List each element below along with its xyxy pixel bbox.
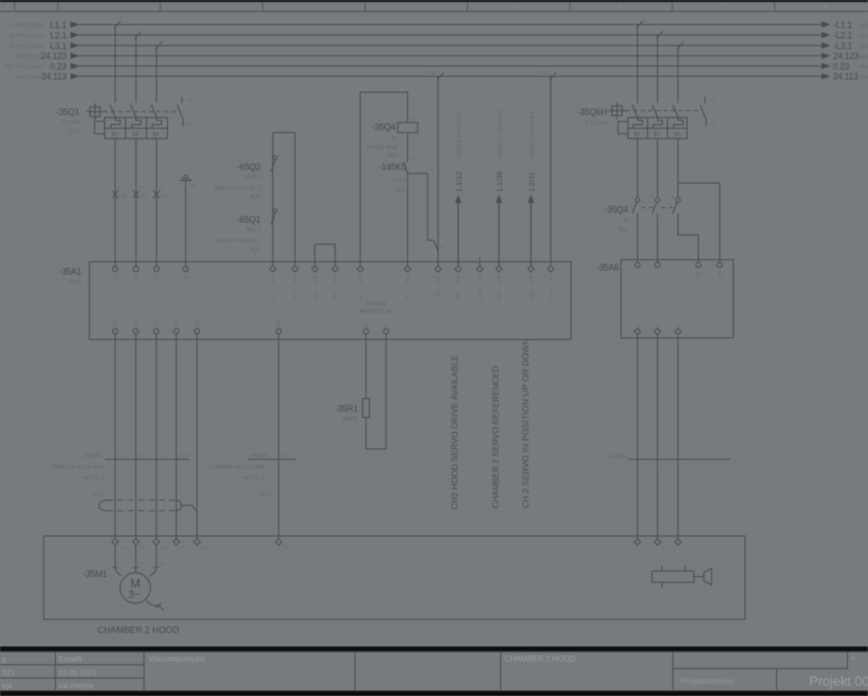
svg-text:1: 1 (631, 195, 633, 199)
page frame top bar (0, 0, 868, 2)
svg-text:X1.1: X1.1 (270, 275, 275, 284)
wire gauge cross mark (133, 190, 139, 198)
motor PE lead (147, 601, 164, 611)
actuator stem (694, 576, 704, 578)
-35A1 top pin DC+ (357, 266, 363, 272)
wire -35A6 pin 1 to machine box (637, 335, 639, 539)
svg-text:DC-: DC- (405, 292, 410, 300)
svg-text:24.113: 24.113 (833, 72, 858, 82)
svg-text:143.2: 143.2 (392, 178, 406, 184)
svg-text:RES: RES (276, 319, 281, 328)
-35A6 top pin L- (655, 262, 660, 267)
svg-text:14: 14 (711, 121, 716, 126)
svg-text:W1: W1 (161, 545, 168, 550)
node L2.1 junction / drop to -35Q6H pole 2 (657, 35, 659, 103)
-35A1 top pin L3 (154, 266, 159, 271)
-35A6 bottom pin 3 (675, 328, 681, 334)
aux contact blade joining x438 wire (434, 240, 439, 251)
motor lead W1 (150, 545, 156, 575)
svg-text:14: 14 (411, 178, 415, 182)
svg-text:14: 14 (188, 121, 193, 126)
header row bottom border (0, 11, 868, 13)
svg-text:CHAMBER 2 SERVO REFERENCED: CHAMBER 2 SERVO REFERENCED (491, 366, 501, 508)
svg-text:L3.1: L3.1 (50, 41, 67, 51)
node L1.1 junction / drop to -35Q6H pole 1 (637, 25, 639, 104)
svg-text:13: 13 (710, 98, 715, 103)
-35A1 bottom pin SH (194, 329, 199, 334)
motor lead V1 (135, 545, 137, 573)
wire motor phase 2 -35A1 to machine (135, 334, 137, 539)
svg-text:24V: 24V (436, 275, 441, 283)
svg-text:DO2: DO2 (496, 275, 501, 284)
svg-text:I>: I> (132, 130, 138, 139)
machine box pin 3 (675, 539, 681, 545)
svg-text:=PV1: =PV1 (858, 34, 868, 40)
svg-text:SAFETY RELAY 2: SAFETY RELAY 2 (214, 186, 260, 192)
svg-text:L1: L1 (113, 275, 118, 280)
svg-text:6: 6 (681, 216, 683, 220)
svg-text:SH2: SH2 (333, 291, 338, 300)
thermal element (674, 118, 683, 129)
svg-text:L2.1: L2.1 (50, 30, 67, 40)
svg-text:SC2: SC2 (259, 493, 270, 499)
-35A1 top pin X2.2 (332, 266, 338, 272)
svg-text:3 =PV1/33.8 /: 3 =PV1/33.8 / (10, 34, 45, 40)
wire -35Q6H pole2 to -35Q4 contact 2 (657, 139, 659, 198)
svg-text:DO1: DO1 (456, 275, 461, 284)
bus L3.1 right arrow (822, 42, 831, 48)
wire gauge cross mark (112, 190, 118, 198)
svg-text:HOOD 2: HOOD 2 (243, 476, 265, 482)
svg-text:0V: 0V (477, 275, 482, 280)
svg-text:BN: BN (117, 453, 123, 458)
wire resistor return loop to R- (366, 334, 386, 449)
svg-text:3Q1: 3Q1 (69, 129, 80, 135)
relay contact -145K5 (404, 162, 408, 173)
-35Q1 pole 2 contact blade (131, 105, 137, 118)
svg-text:CHAMBER 2 HOOD: CHAMBER 2 HOOD (505, 655, 576, 664)
bus 0.23 right arrow (822, 63, 831, 69)
svg-text:13: 13 (411, 157, 415, 161)
bus 24.113 right arrow (822, 73, 831, 79)
-35A1 bottom pin R- (384, 329, 389, 334)
svg-text:24V: 24V (548, 275, 553, 283)
svg-text:U2: U2 (113, 321, 118, 327)
svg-text:=PV1: =PV1 (858, 23, 868, 29)
svg-text:1.5: 1.5 (159, 185, 165, 190)
thermal element (653, 118, 662, 129)
wire bracket feeding -65Q2 chain (273, 133, 295, 267)
svg-text:24.113: 24.113 (425, 71, 436, 75)
svg-text:Vakuumpumpen: Vakuumpumpen (149, 655, 205, 664)
-35A1 top pin PE (183, 266, 188, 271)
brake module -35A6 box (621, 260, 733, 338)
svg-text:-35A1: -35A1 (59, 267, 82, 277)
svg-text:=PV1/13.8 /: =PV1/13.8 / (15, 54, 45, 60)
machine box pin W1 (153, 539, 159, 545)
-35Q6H manual operator (crossed square) (612, 106, 622, 116)
svg-text:PE: PE (174, 322, 179, 328)
interruption point arrow 1.2/11 (530, 205, 532, 266)
svg-text:V1: V1 (140, 545, 146, 550)
svg-text:SC1: SC1 (93, 493, 104, 499)
contactor -35Q4 device box outline (360, 92, 407, 266)
bus L2.1 right arrow (822, 32, 831, 38)
-35Q1 thermal overload box (105, 118, 168, 139)
svg-text:W2: W2 (154, 321, 159, 328)
wire branch pole3 to -35A6 pin4 (bypass) (678, 183, 720, 262)
thermal element (111, 118, 120, 129)
svg-text:I>: I> (112, 130, 118, 139)
wire -35Q6H pole1 to -35Q4 contact 1 (637, 139, 639, 198)
svg-text:-65Q1: -65Q1 (237, 215, 261, 225)
-35A1 bottom pin V2 (133, 329, 138, 334)
wire PE ground to -35A1 (185, 180, 187, 266)
wire contact3 jog to -35A6 pin3 (678, 213, 698, 262)
svg-text:=PV1: =PV1 (858, 65, 868, 71)
-35Q6H mechanical link (dashed) (625, 110, 700, 112)
bus line 0.23 (79, 65, 821, 67)
wire -145K5 lower terminal down to -35A1 (407, 174, 409, 267)
svg-text:0.23: 0.23 (50, 61, 67, 71)
thermal element (633, 118, 642, 129)
svg-text:3K1: 3K1 (387, 153, 397, 159)
wire motor phase 1 -35A1 to machine (114, 334, 116, 539)
cable shield symbol (dashed ellipse) (99, 500, 107, 511)
-35A1 bottom pin U2 (113, 329, 118, 334)
-35A1 top pin L2 (133, 266, 138, 271)
machine box pin R1 (276, 539, 282, 545)
cable -W3W1 line (105, 458, 189, 460)
svg-text:1 =PV1/33.8 /: 1 =PV1/33.8 / (10, 23, 45, 29)
header column ticks (14, 2, 16, 12)
svg-text:2.1-2.8A: 2.1-2.8A (585, 121, 607, 127)
-35Q6H auxiliary contact (704, 96, 706, 103)
svg-text:Erstellt: Erstellt (59, 655, 83, 664)
title block grid lines (0, 651, 868, 653)
svg-text:X1.2: X1.2 (292, 275, 297, 284)
svg-text:I>: I> (634, 130, 640, 139)
svg-text:SH: SH (195, 322, 200, 328)
svg-text:-L1.1: -L1.1 (833, 20, 852, 30)
wire motor phase 3 -35A1 to machine (155, 334, 157, 539)
svg-text:RDY: RDY (456, 291, 461, 300)
-35A1 bottom pin RES (276, 329, 281, 334)
-35A1 top pin DO3 (528, 266, 534, 272)
svg-text:-65Q2: -65Q2 (237, 162, 261, 172)
svg-text:-35M1: -35M1 (83, 569, 107, 579)
-35Q1 auxiliary contact (181, 96, 183, 103)
-35A1 top pin DO2 (496, 266, 502, 272)
svg-text:-35Q4: -35Q4 (372, 122, 396, 132)
svg-text:VENDOR 4x1,5 mm²: VENDOR 4x1,5 mm² (51, 464, 104, 470)
svg-text:24: 24 (440, 245, 444, 249)
brake actuator body (652, 571, 694, 582)
svg-text:L2: L2 (134, 275, 139, 280)
svg-text:ST2: ST2 (292, 292, 297, 300)
svg-text:3021: 3021 (69, 280, 82, 286)
-35Q6H trip mechanism bracket (618, 121, 628, 133)
svg-text:1.2/11: 1.2/11 (527, 172, 536, 192)
svg-text:R-: R- (384, 322, 389, 327)
svg-text:4: 4 (660, 216, 662, 220)
node L2.1 junction / drop to -35Q1 pole 2 (135, 35, 137, 103)
svg-text:3Q2: 3Q2 (250, 194, 261, 200)
svg-text:3~: 3~ (128, 589, 141, 601)
bus line L1.1 (79, 24, 821, 26)
svg-text:/ -30Q3.16 +PV1/20.7: / -30Q3.16 +PV1/20.7 (498, 108, 504, 163)
svg-text:-L3.1: -L3.1 (833, 41, 852, 51)
svg-text:021: 021 (2, 668, 15, 677)
svg-text:-6: -6 (390, 137, 395, 143)
bus L1.1 right arrow (822, 21, 831, 27)
svg-text:GY: GY (159, 453, 165, 458)
bus 24.123 right arrow (822, 53, 831, 59)
svg-text:1.5: 1.5 (139, 185, 145, 190)
svg-text:CH 2 SERVO IN POSITION UP OR D: CH 2 SERVO IN POSITION UP OR DOWN (521, 338, 531, 508)
motor -35M1 circle (120, 573, 150, 603)
svg-text:PE: PE (183, 275, 188, 281)
svg-text:=PV1/14.8 /: =PV1/14.8 / (15, 75, 45, 81)
svg-text:REF: REF (496, 291, 501, 300)
svg-text:16-22A: 16-22A (61, 120, 80, 126)
svg-text:-35R1: -35R1 (335, 404, 358, 414)
machine box pin 1 (634, 539, 640, 545)
wire branch to aux contact (408, 174, 434, 241)
svg-text:100R5: 100R5 (341, 417, 358, 423)
cable -E3W6 line (628, 458, 731, 460)
thermal element (152, 118, 161, 129)
svg-text:B2: B2 (717, 271, 722, 277)
-35Q6H thermal overload box (628, 118, 687, 139)
ground symbol (PE) (184, 174, 187, 176)
node 24.113 junction / drop to -35A1 pin at x438 (437, 76, 439, 266)
wire resolver -35A1 to machine (278, 334, 280, 539)
svg-text:3R1: 3R1 (396, 188, 406, 194)
svg-text:W1: W1 (159, 561, 166, 566)
svg-text:-145K5: -145K5 (379, 162, 407, 172)
wire bracket to -35A1 pins x314/x335 (315, 244, 335, 266)
-35A6 bottom pin 1 (634, 328, 640, 334)
-35Q4 main contact 3-4 (655, 198, 659, 202)
svg-text:-35Q6H: -35Q6H (577, 107, 607, 117)
svg-text:U1: U1 (118, 561, 124, 566)
title block top black band (0, 647, 868, 652)
wire gauge cross mark (153, 190, 159, 198)
svg-text:12x: 12x (281, 453, 287, 458)
bus L1.1 left arrow (71, 21, 80, 27)
svg-text:PE: PE (165, 606, 171, 611)
svg-text:A52.2: A52.2 (246, 174, 261, 180)
bus 0.23 left arrow (71, 63, 80, 69)
bus 24.113 left arrow (71, 73, 80, 79)
svg-text:PE: PE (190, 184, 196, 189)
svg-text:Projektnummer: Projektnummer (681, 677, 736, 686)
svg-text:DC+: DC+ (358, 275, 363, 284)
svg-text:-E3W6: -E3W6 (608, 454, 626, 460)
svg-text:1.1/30: 1.1/30 (495, 171, 504, 192)
wire motor phase 4 -35A1 to machine (175, 334, 177, 539)
wire -35Q1 pole 3 output to -35A1 (156, 139, 158, 267)
bus line L3.1 (79, 45, 821, 47)
wire contact2 to -35A6 pin2 (657, 213, 659, 262)
thermal element (132, 118, 141, 129)
svg-text:R+: R+ (364, 321, 369, 327)
bus line 24.113 (79, 75, 821, 77)
node L3.1 junction / drop to -35Q6H pole 3 (677, 46, 679, 104)
svg-text:-W3W1: -W3W1 (83, 453, 102, 459)
svg-text:L-: L- (655, 271, 660, 275)
svg-text:HOOD 2: HOOD 2 (82, 476, 104, 482)
wire -35A1 R+ down to resistor (365, 334, 367, 399)
svg-text:=PV1: =PV1 (858, 44, 868, 50)
cable -W3W2 line (248, 458, 296, 460)
node L1.1 junction / drop to -35Q1 pole 1 (114, 25, 116, 103)
-35Q1 pole 1 contact blade (110, 105, 116, 118)
wire -35Q1 pole 1 output to -35A1 (114, 139, 116, 267)
svg-text:-4: -4 (623, 218, 628, 224)
-35Q1 pole 3 contact blade (151, 105, 157, 118)
-35Q6H pole 2 contact blade (652, 105, 658, 118)
node L3.1 junction / drop to -35Q1 pole 3 (156, 46, 158, 103)
svg-text:Projekt 00: Projekt 00 (809, 674, 868, 689)
-35Q4 contacts mechanical link dashes (642, 207, 654, 209)
wire -35Q6H pole3 down to junction (677, 139, 679, 198)
svg-text:DC-: DC- (405, 275, 410, 283)
machine enclosure box (44, 536, 745, 619)
svg-text:3K1: 3K1 (618, 228, 628, 234)
bus 24.123 left arrow (71, 53, 80, 59)
svg-text:BK: BK (138, 453, 144, 458)
svg-text:L3: L3 (154, 275, 159, 280)
svg-text:RESISTOR: RESISTOR (360, 309, 392, 316)
svg-text:-W3W2: -W3W2 (249, 453, 268, 459)
svg-text:PE =PV1/34.8 /: PE =PV1/34.8 / (5, 65, 44, 71)
svg-text:23: 23 (431, 168, 435, 172)
svg-text:5: 5 (672, 195, 674, 199)
machine box pin PE (173, 539, 179, 545)
servo drive -35A1 box (89, 262, 571, 340)
-35Q1 manual operator (crossed square) (86, 103, 103, 120)
-35A1 top pin L1 (113, 266, 118, 271)
machine box pin U1 (112, 539, 118, 545)
svg-text:-35Q4: -35Q4 (604, 205, 628, 215)
title block bottom black band (0, 691, 868, 696)
svg-text:g: g (2, 655, 6, 664)
svg-text:VENDOR RESOLVER: VENDOR RESOLVER (208, 465, 264, 471)
-35A6 bottom pin 2 (654, 328, 660, 334)
wire coil to -145K5 contact (407, 133, 409, 162)
-35A1 top pin 24V (548, 266, 554, 272)
-35A1 bottom pin PE (174, 329, 179, 334)
svg-text:13: 13 (187, 98, 192, 103)
svg-text:24.123: 24.123 (41, 51, 67, 61)
svg-text:V2: V2 (133, 322, 138, 328)
svg-text:eja: eja (2, 681, 13, 690)
-35A1 top pin DO1 (455, 266, 461, 272)
svg-text:I>: I> (674, 130, 680, 139)
-35A1 bottom pin R+ (363, 329, 368, 334)
machine box pin 2 (654, 539, 660, 545)
svg-text:2: 2 (640, 216, 642, 220)
svg-text:24.113: 24.113 (41, 72, 66, 82)
svg-text:X2.1: X2.1 (312, 275, 317, 284)
wire contact1 to -35A6 pin1 (637, 213, 639, 262)
svg-text:1.1/12: 1.1/12 (454, 171, 463, 192)
-35Q6H pole 3 contact blade (673, 105, 679, 118)
svg-text:I>: I> (654, 130, 660, 139)
svg-text:/ -30Q2.2 +PV1/28.4: / -30Q2.2 +PV1/28.4 (530, 111, 536, 163)
svg-text:CH2 HOOD SERVO DRIVE AVAILABL: CH2 HOOD SERVO DRIVE AVAILABLE (450, 355, 460, 510)
-35Q1 trip mechanism bracket (95, 121, 105, 133)
-35A6 top pin L+ (635, 262, 640, 267)
wire motor phase 5 -35A1 to machine (196, 334, 198, 539)
svg-text:R1: R1 (283, 545, 289, 550)
machine box pin V1 (133, 539, 139, 545)
safety relay contact -65Q2 (273, 156, 277, 160)
-35A6 top pin B1 (696, 262, 701, 267)
svg-text:GND: GND (477, 291, 482, 300)
svg-text:3Q1: 3Q1 (250, 247, 261, 253)
bus line 24.123 (79, 55, 821, 57)
svg-text:5 =PV1/33.8 /: 5 =PV1/33.8 / (10, 44, 45, 50)
svg-text:SH: SH (202, 545, 208, 550)
-35A1 stub wire pin x479.8 (479, 258, 481, 266)
node 24.113 junction / drop to -35A1 pin at x551 (550, 76, 552, 266)
svg-text:DC+: DC+ (358, 291, 363, 300)
actuator tick marks (661, 566, 663, 572)
svg-text:POS: POS (528, 291, 533, 300)
-35A1 top pin X1.1 (270, 266, 276, 272)
bus line L2.1 (79, 34, 821, 36)
wire -35A6 pin 3 to machine box (677, 335, 679, 539)
svg-text:=: = (851, 654, 856, 663)
-35A6 top pin B2 (717, 262, 722, 267)
svg-text:GNYE: GNYE (179, 453, 191, 458)
svg-text:CHAMBER 2 HOOD: CHAMBER 2 HOOD (98, 625, 180, 635)
svg-text:-L2.1: -L2.1 (833, 30, 852, 40)
svg-text:A1: A1 (410, 118, 415, 122)
svg-text:ST1: ST1 (270, 292, 275, 300)
svg-text:U1: U1 (120, 545, 126, 550)
-35A1 top pin DC- (404, 266, 410, 272)
bus L2.1 left arrow (71, 32, 80, 38)
svg-text:BK: BK (142, 192, 148, 197)
motor lead U1 (115, 545, 121, 575)
-35A1 top pin X1.2 (292, 266, 298, 272)
contactor coil -35Q4 (398, 123, 418, 133)
svg-text:24VDC 4kW: 24VDC 4kW (366, 145, 398, 151)
svg-text:24.123: 24.123 (833, 51, 859, 61)
svg-text:=PV1: =PV1 (858, 54, 868, 60)
-35Q4 main contact 1-2 (635, 198, 639, 202)
svg-text:L1.1: L1.1 (50, 20, 67, 30)
svg-text:A51.1: A51.1 (246, 227, 261, 233)
interruption point arrow 1.1/12 (457, 205, 459, 266)
svg-text:BK: BK (163, 192, 169, 197)
-35A1 top pin X2.1 (312, 266, 318, 272)
-35A1 top pin 24V (435, 266, 441, 272)
-35Q6H pole 1 contact blade (632, 105, 638, 118)
machine box pin SH (194, 539, 200, 545)
svg-text:X2.2: X2.2 (333, 275, 338, 284)
svg-text:+24V: +24V (436, 290, 441, 300)
-35Q4 main contact 5-6 (676, 198, 680, 202)
svg-text:DO3: DO3 (528, 275, 533, 284)
svg-text:BRAKE: BRAKE (366, 301, 387, 308)
svg-text:/ -30Q1.4 +PV1/24.5: / -30Q1.4 +PV1/24.5 (457, 111, 463, 163)
svg-text:0.23: 0.23 (833, 61, 850, 71)
